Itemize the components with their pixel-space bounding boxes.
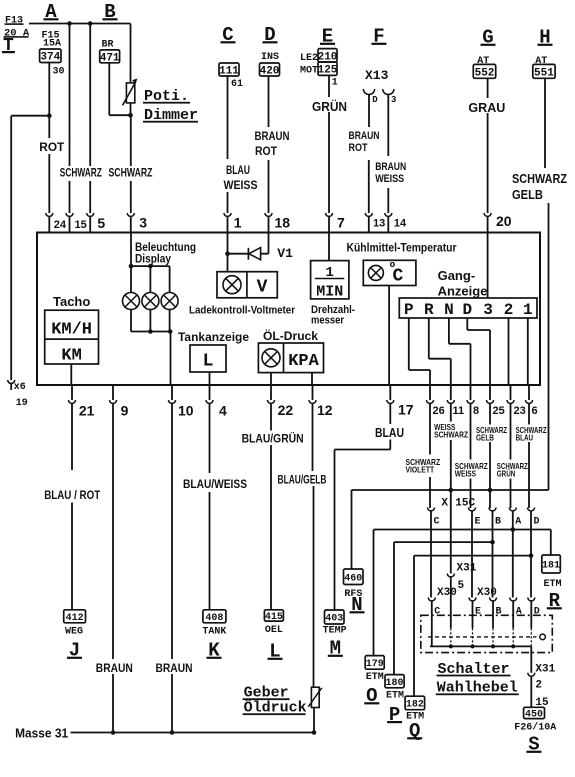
- svg-text:D: D: [534, 517, 540, 528]
- svg-text:X31: X31: [535, 663, 555, 675]
- svg-text:V: V: [257, 278, 268, 298]
- svg-text:X31: X31: [457, 563, 477, 575]
- svg-text:BRAUN: BRAUN: [96, 661, 133, 675]
- svg-text:ROT: ROT: [349, 142, 368, 154]
- svg-text:BRAUN: BRAUN: [255, 129, 290, 143]
- svg-text:LE2: LE2: [300, 53, 318, 64]
- svg-text:15C: 15C: [455, 497, 475, 509]
- svg-text:INS: INS: [261, 52, 279, 63]
- svg-text:22: 22: [278, 402, 294, 418]
- svg-text:13: 13: [373, 218, 385, 230]
- svg-text:23: 23: [514, 405, 526, 417]
- svg-text:111: 111: [219, 65, 239, 77]
- svg-text:Anzeige: Anzeige: [438, 284, 488, 299]
- svg-text:V1: V1: [277, 246, 293, 261]
- svg-text:Tacho: Tacho: [53, 294, 90, 309]
- svg-text:A: A: [515, 517, 521, 528]
- svg-text:C: C: [393, 267, 404, 287]
- svg-text:BLAU / ROT: BLAU / ROT: [44, 488, 101, 502]
- svg-text:408: 408: [205, 613, 223, 624]
- svg-text:1: 1: [332, 78, 338, 89]
- svg-text:Beleuchtung: Beleuchtung: [135, 242, 196, 254]
- svg-text:P: P: [404, 301, 414, 319]
- svg-text:ETM: ETM: [386, 691, 404, 702]
- svg-text:420: 420: [260, 65, 280, 77]
- svg-text:1: 1: [523, 301, 533, 319]
- svg-text:BR: BR: [102, 40, 114, 51]
- svg-text:BLAU/WEISS: BLAU/WEISS: [183, 477, 247, 491]
- svg-text:TEMP: TEMP: [323, 626, 347, 637]
- svg-text:D: D: [462, 301, 472, 319]
- svg-text:14: 14: [394, 218, 407, 230]
- svg-text:TANK: TANK: [202, 627, 226, 638]
- svg-text:C: C: [434, 517, 440, 528]
- svg-text:WEISS: WEISS: [455, 468, 477, 478]
- svg-text:9: 9: [121, 402, 129, 418]
- svg-text:180: 180: [386, 678, 404, 689]
- svg-text:5: 5: [458, 580, 465, 592]
- svg-text:SCHWARZ: SCHWARZ: [512, 171, 567, 186]
- svg-text:ETM: ETM: [544, 579, 562, 590]
- svg-text:BRAUN: BRAUN: [375, 161, 406, 173]
- svg-text:F26/10A: F26/10A: [514, 721, 556, 733]
- svg-text:1: 1: [234, 215, 242, 231]
- svg-text:E: E: [475, 517, 481, 528]
- svg-text:24: 24: [54, 219, 67, 231]
- svg-text:BRAUN: BRAUN: [156, 661, 193, 675]
- svg-text:AT: AT: [477, 56, 489, 67]
- svg-text:GELB: GELB: [512, 187, 543, 202]
- svg-text:19: 19: [16, 398, 28, 409]
- svg-text:B: B: [495, 517, 501, 528]
- svg-text:182: 182: [406, 700, 424, 711]
- svg-text:2: 2: [535, 680, 542, 692]
- svg-text:Ladekontroll-Voltmeter: Ladekontroll-Voltmeter: [189, 305, 296, 317]
- svg-text:ROT: ROT: [255, 144, 278, 158]
- svg-text:ETM: ETM: [366, 672, 384, 683]
- svg-text:KM: KM: [61, 347, 81, 366]
- svg-text:SCHWARZ: SCHWARZ: [434, 430, 468, 440]
- svg-text:4: 4: [219, 402, 227, 418]
- svg-text:WEISS: WEISS: [224, 178, 258, 192]
- svg-text:GRÜN: GRÜN: [497, 468, 516, 478]
- svg-text:messer: messer: [311, 315, 345, 327]
- svg-text:MOT: MOT: [300, 66, 318, 77]
- svg-text:471: 471: [100, 52, 120, 64]
- svg-text:KPA: KPA: [288, 352, 319, 371]
- svg-text:450: 450: [525, 710, 543, 721]
- svg-text:L: L: [203, 352, 214, 372]
- svg-text:Masse 31: Masse 31: [15, 726, 68, 741]
- svg-text:X: X: [441, 497, 448, 509]
- svg-text:403: 403: [325, 614, 343, 625]
- svg-text:N: N: [444, 301, 454, 319]
- svg-text:12: 12: [317, 402, 333, 418]
- svg-text:7: 7: [337, 215, 345, 231]
- svg-text:15A: 15A: [43, 39, 61, 50]
- svg-text:2: 2: [504, 301, 514, 319]
- svg-text:BLAU/GELB: BLAU/GELB: [278, 473, 327, 487]
- svg-text:KM/H: KM/H: [51, 321, 92, 340]
- svg-text:BLAU: BLAU: [375, 425, 404, 440]
- svg-text:3: 3: [391, 95, 396, 105]
- svg-text:WEISS: WEISS: [375, 173, 404, 185]
- svg-text:30: 30: [53, 67, 65, 78]
- svg-text:21: 21: [79, 402, 95, 418]
- svg-text:GRÜN: GRÜN: [312, 99, 347, 114]
- svg-text:BRAUN: BRAUN: [349, 130, 380, 142]
- svg-text:15: 15: [75, 219, 87, 231]
- svg-text:VIOLETT: VIOLETT: [406, 465, 435, 475]
- svg-text:Display: Display: [135, 254, 172, 266]
- svg-text:WEG: WEG: [65, 627, 83, 638]
- svg-text:11: 11: [453, 405, 465, 417]
- svg-text:26: 26: [433, 405, 445, 417]
- svg-text:X13: X13: [365, 68, 389, 83]
- svg-text:R: R: [424, 301, 434, 319]
- svg-text:BLAU/GRÜN: BLAU/GRÜN: [242, 431, 304, 446]
- svg-text:AT: AT: [535, 56, 547, 67]
- svg-text:5: 5: [97, 215, 105, 231]
- svg-text:17: 17: [398, 402, 414, 418]
- svg-text:GELB: GELB: [476, 433, 494, 443]
- svg-text:412: 412: [66, 613, 84, 624]
- svg-text:BLAU: BLAU: [516, 433, 534, 443]
- svg-text:61: 61: [231, 79, 243, 90]
- svg-text:6: 6: [532, 405, 538, 417]
- svg-text:x6: x6: [14, 382, 26, 393]
- svg-text:D: D: [372, 95, 378, 105]
- svg-text:25: 25: [493, 405, 505, 417]
- svg-text:552: 552: [475, 67, 495, 79]
- svg-text:3: 3: [483, 301, 493, 319]
- svg-text:374: 374: [40, 52, 60, 64]
- svg-text:551: 551: [534, 67, 554, 79]
- svg-text:ÖL-Druck: ÖL-Druck: [263, 328, 318, 343]
- svg-text:181: 181: [542, 561, 560, 572]
- svg-text:20: 20: [496, 213, 512, 229]
- svg-text:GRAU: GRAU: [468, 100, 505, 115]
- svg-text:3: 3: [139, 215, 147, 231]
- svg-text:125: 125: [318, 65, 338, 77]
- svg-text:179: 179: [366, 659, 384, 670]
- svg-text:X30: X30: [437, 587, 457, 599]
- svg-text:Gang-: Gang-: [438, 268, 476, 283]
- svg-text:Tankanzeige: Tankanzeige: [178, 330, 249, 344]
- svg-text:415: 415: [265, 612, 283, 623]
- svg-text:X30: X30: [477, 587, 497, 599]
- svg-text:OEL: OEL: [265, 625, 283, 636]
- svg-text:BLAU: BLAU: [226, 163, 250, 177]
- svg-text:MIN: MIN: [316, 284, 343, 301]
- svg-text:18: 18: [275, 215, 291, 231]
- svg-text:Kühlmittel-Temperatur: Kühlmittel-Temperatur: [347, 241, 457, 255]
- svg-text:460: 460: [344, 573, 362, 584]
- svg-text:SCHWARZ: SCHWARZ: [109, 166, 153, 180]
- svg-text:8: 8: [473, 405, 479, 417]
- svg-text:ROT: ROT: [39, 140, 65, 154]
- svg-text:SCHWARZ: SCHWARZ: [60, 166, 102, 180]
- svg-text:10: 10: [178, 402, 194, 418]
